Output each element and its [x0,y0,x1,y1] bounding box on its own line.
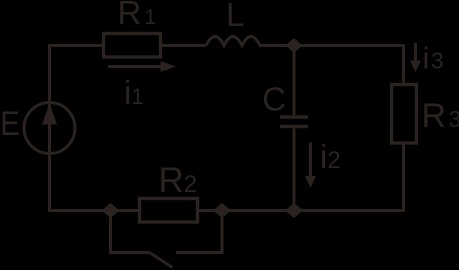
svg-text:R3: R3 [422,97,459,135]
wire top right [259,46,404,85]
svg-text:i2: i2 [320,138,341,175]
node bottom right [213,203,231,218]
arrow i3 [410,43,421,72]
wire capacitor top lead [293,47,296,115]
wire bottom left [48,209,140,212]
wire top from R1 to inductor [160,44,206,47]
switch blade (open) [150,253,173,268]
resistor R3 [392,85,417,144]
arrow i2 [305,143,316,189]
source E circle [24,103,75,154]
inductor L [206,37,260,46]
resistor R1 [104,34,161,58]
svg-text:C: C [262,81,286,118]
svg-text:i3: i3 [423,41,444,76]
wire bottom right [198,209,406,212]
svg-text:i1: i1 [124,74,144,111]
node bottom left [102,203,120,218]
wire capacitor bottom lead [293,128,296,210]
svg-text:R2: R2 [159,161,198,200]
arrow i1 [108,61,176,72]
capacitor C bottom plate [280,125,308,129]
source E arrowhead [42,103,57,125]
resistor R2 [140,199,198,223]
wire left vertical [50,46,105,211]
svg-text:R1: R1 [118,0,157,31]
switch branch right [176,212,222,253]
svg-text:E: E [0,104,20,142]
capacitor C top plate [280,115,308,119]
node top (junction L/C) [286,38,303,53]
node bottom middle (C junction) [285,203,303,218]
switch branch left [111,212,150,253]
svg-text:L: L [226,0,244,33]
wire R3 bottom [402,143,405,211]
